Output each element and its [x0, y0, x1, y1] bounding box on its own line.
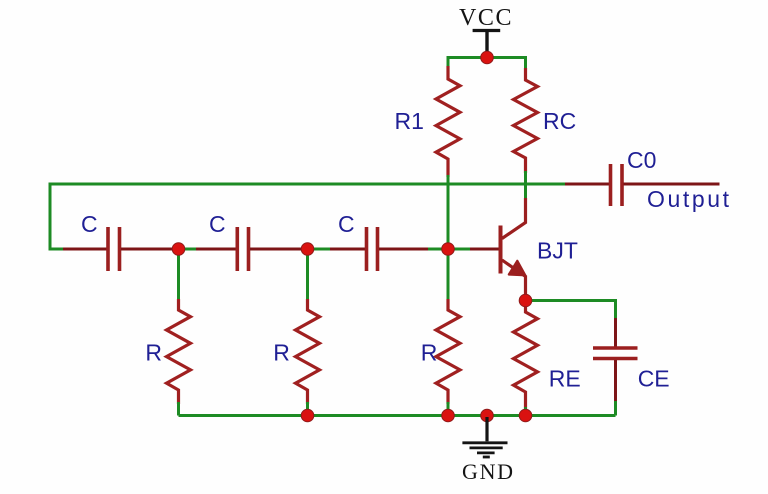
- label BJT: [537, 238, 578, 264]
- label R first: [145, 340, 162, 366]
- wire feedback left vertical: [49, 183, 52, 251]
- svg-text:R: R: [421, 340, 438, 366]
- capacitor C (second): [237, 227, 248, 271]
- resistor RC: [514, 68, 538, 173]
- wire base lead: [470, 248, 499, 251]
- wire RE bottom: [524, 407, 527, 417]
- wire chain start green: [50, 248, 65, 251]
- label Output: [647, 186, 732, 212]
- resistor R (third): [436, 299, 460, 404]
- label GND: [462, 459, 515, 484]
- transistor Q1 BJT: [501, 198, 526, 296]
- node base junction: [442, 243, 455, 256]
- svg-text:C: C: [209, 211, 226, 237]
- svg-text:CE: CE: [638, 366, 670, 392]
- node emitter junction: [519, 294, 532, 307]
- svg-text:BJT: BJT: [537, 238, 578, 264]
- svg-text:C: C: [81, 211, 98, 237]
- label VCC: [459, 5, 513, 31]
- wire feedback output line: [50, 183, 567, 186]
- node VCC junction: [481, 51, 494, 64]
- svg-text:C0: C0: [627, 147, 656, 173]
- wire ground bus: [179, 414, 616, 417]
- svg-text:GND: GND: [462, 459, 515, 484]
- wire node A drop: [177, 253, 180, 301]
- wire RC bottom to collector: [524, 171, 527, 199]
- resistor RE: [514, 306, 538, 409]
- wire lead to C third: [330, 248, 365, 251]
- wire green into base node: [428, 248, 472, 251]
- wire CE bottom green: [614, 401, 617, 416]
- wire R1 bottom to base node: [447, 175, 450, 301]
- svg-text:VCC: VCC: [459, 5, 513, 31]
- wire C3 to base node: [379, 248, 430, 251]
- label C0: [627, 147, 656, 173]
- wire top rail VCC: [448, 56, 526, 59]
- capacitor CE: [593, 348, 638, 359]
- svg-text:Output: Output: [647, 186, 732, 212]
- resistor R (second): [296, 299, 320, 404]
- svg-text:R1: R1: [395, 108, 424, 134]
- wire R1 column top: [447, 56, 450, 67]
- wire emitter to CE: [531, 301, 616, 321]
- wire lead to C second: [196, 248, 236, 251]
- node bus ground: [481, 409, 494, 422]
- label C first: [81, 211, 98, 237]
- wire R3rd bottom: [447, 402, 450, 417]
- wire node A green right: [183, 248, 198, 251]
- capacitor C0: [611, 164, 623, 206]
- label R third: [421, 340, 438, 366]
- wire R1st bottom: [177, 402, 180, 416]
- wire output right: [624, 183, 720, 186]
- capacitor C (first): [108, 227, 120, 271]
- label C third: [338, 211, 355, 237]
- resistor R (first): [167, 299, 191, 404]
- wire C2 to node B: [250, 248, 304, 251]
- svg-text:C: C: [338, 211, 355, 237]
- power VCC symbol: [473, 31, 501, 54]
- wire lead to C first: [63, 248, 107, 251]
- label R second: [273, 340, 290, 366]
- wire C0 lead left: [565, 183, 609, 186]
- wire CE top lead: [614, 318, 617, 347]
- label R1: [395, 108, 424, 134]
- node bus R3: [442, 409, 455, 422]
- ground symbol: [462, 417, 507, 457]
- node B junction: [301, 243, 314, 256]
- label RE: [549, 366, 581, 392]
- wire CE bottom lead: [614, 360, 617, 403]
- node bus RE: [519, 409, 532, 422]
- wire RC column top: [524, 56, 527, 69]
- capacitor C (third): [367, 227, 378, 271]
- node bus R2: [301, 409, 314, 422]
- svg-text:R: R: [273, 340, 290, 366]
- label CE: [638, 366, 670, 392]
- label RC: [543, 108, 576, 134]
- svg-text:R: R: [145, 340, 162, 366]
- wire R2nd bottom: [306, 402, 309, 416]
- svg-text:RE: RE: [549, 366, 581, 392]
- wire node B drop: [306, 253, 309, 301]
- node A junction: [172, 243, 185, 256]
- wire C to node A: [121, 248, 175, 251]
- label C second: [209, 211, 226, 237]
- svg-text:RC: RC: [543, 108, 576, 134]
- resistor R1: [436, 66, 460, 177]
- wire node B green right: [312, 248, 332, 251]
